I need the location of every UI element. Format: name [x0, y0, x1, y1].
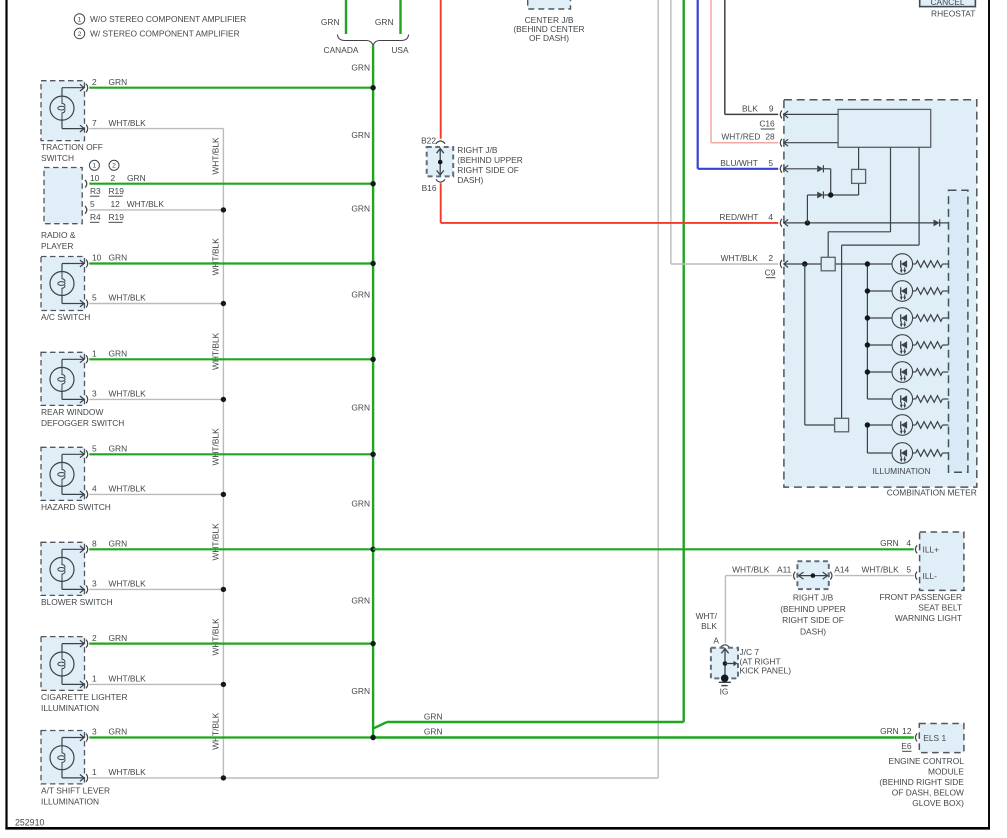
- svg-text:5: 5: [90, 199, 95, 209]
- svg-text:FRONT PASSENGER: FRONT PASSENGER: [879, 592, 962, 602]
- svg-text:GRN: GRN: [351, 402, 370, 412]
- svg-text:WHT/BLK: WHT/BLK: [109, 118, 147, 128]
- svg-text:3: 3: [92, 579, 97, 589]
- svg-text:HAZARD SWITCH: HAZARD SWITCH: [41, 502, 111, 512]
- svg-text:2: 2: [111, 173, 116, 183]
- svg-text:1: 1: [93, 163, 97, 170]
- svg-text:WHT/BLK: WHT/BLK: [109, 674, 147, 684]
- svg-text:R19: R19: [109, 186, 125, 196]
- svg-text:B16: B16: [422, 183, 437, 193]
- svg-text:GRN: GRN: [351, 130, 370, 140]
- svg-text:(BEHIND UPPER: (BEHIND UPPER: [780, 604, 846, 614]
- svg-text:GRN: GRN: [109, 633, 128, 643]
- svg-text:WHT/BLK: WHT/BLK: [109, 767, 147, 777]
- svg-text:1: 1: [92, 767, 97, 777]
- svg-text:WHT/BLK: WHT/BLK: [109, 484, 147, 494]
- svg-text:E6: E6: [901, 741, 912, 751]
- svg-text:WHT/BLK: WHT/BLK: [211, 332, 221, 370]
- svg-text:OF DASH, BELOW: OF DASH, BELOW: [892, 788, 964, 798]
- svg-text:WHT/RED: WHT/RED: [721, 132, 760, 142]
- svg-text:R3: R3: [90, 186, 101, 196]
- svg-text:CANCEL: CANCEL: [931, 0, 965, 7]
- svg-text:WHT/BLK: WHT/BLK: [211, 428, 221, 466]
- svg-text:WHT/BLK: WHT/BLK: [109, 579, 147, 589]
- svg-text:ELS 1: ELS 1: [923, 733, 946, 743]
- svg-text:ILLUMINATION: ILLUMINATION: [41, 796, 99, 806]
- svg-text:4: 4: [92, 484, 97, 494]
- svg-text:9: 9: [769, 103, 774, 113]
- svg-text:KICK PANEL): KICK PANEL): [740, 666, 792, 676]
- svg-text:REAR WINDOW: REAR WINDOW: [41, 407, 103, 417]
- svg-text:A14: A14: [834, 564, 849, 574]
- svg-text:USA: USA: [391, 45, 409, 55]
- svg-text:3: 3: [92, 389, 97, 399]
- svg-text:BLU/WHT: BLU/WHT: [720, 158, 758, 168]
- svg-text:GRN: GRN: [880, 726, 899, 736]
- svg-text:WHT/BLK: WHT/BLK: [211, 712, 221, 750]
- svg-text:GRN: GRN: [424, 711, 443, 721]
- svg-text:4: 4: [906, 538, 911, 548]
- svg-text:1: 1: [92, 674, 97, 684]
- svg-text:(BEHIND UPPER: (BEHIND UPPER: [457, 155, 523, 165]
- svg-text:5: 5: [768, 158, 773, 168]
- svg-text:10: 10: [92, 253, 102, 263]
- svg-text:A/C SWITCH: A/C SWITCH: [41, 312, 90, 322]
- svg-text:2: 2: [92, 633, 97, 643]
- svg-text:GRN: GRN: [109, 539, 128, 549]
- svg-text:GRN: GRN: [109, 253, 128, 263]
- svg-text:OF DASH): OF DASH): [529, 33, 569, 43]
- svg-text:252910: 252910: [15, 818, 44, 828]
- svg-text:A11: A11: [777, 564, 792, 574]
- svg-text:PLAYER: PLAYER: [41, 241, 73, 251]
- svg-text:WHT/BLK: WHT/BLK: [109, 293, 147, 303]
- svg-text:GRN: GRN: [351, 203, 370, 213]
- svg-text:WHT/BLK: WHT/BLK: [732, 564, 770, 574]
- svg-text:28: 28: [765, 132, 775, 142]
- svg-text:GRN: GRN: [109, 727, 128, 737]
- svg-text:WARNING LIGHT: WARNING LIGHT: [895, 613, 962, 623]
- svg-text:GLOVE BOX): GLOVE BOX): [912, 798, 964, 808]
- svg-text:GRN: GRN: [351, 686, 370, 696]
- svg-text:RED/WHT: RED/WHT: [719, 212, 758, 222]
- svg-text:A/T SHIFT LEVER: A/T SHIFT LEVER: [41, 785, 110, 795]
- svg-text:GRN: GRN: [127, 173, 146, 183]
- svg-text:WHT/BLK: WHT/BLK: [721, 253, 759, 263]
- svg-text:8: 8: [92, 539, 97, 549]
- svg-text:GRN: GRN: [109, 77, 128, 87]
- svg-text:10: 10: [90, 173, 100, 183]
- svg-text:4: 4: [768, 212, 773, 222]
- svg-text:5: 5: [92, 444, 97, 454]
- svg-text:ILL-: ILL-: [923, 571, 938, 581]
- svg-text:(BEHIND RIGHT SIDE: (BEHIND RIGHT SIDE: [879, 777, 964, 787]
- svg-text:ILL+: ILL+: [923, 545, 940, 555]
- svg-text:WHT/BLK: WHT/BLK: [211, 137, 221, 175]
- svg-text:COMBINATION METER: COMBINATION METER: [887, 488, 977, 498]
- svg-text:5: 5: [92, 293, 97, 303]
- svg-text:1: 1: [78, 16, 82, 23]
- svg-text:WHT/BLK: WHT/BLK: [109, 389, 147, 399]
- svg-text:RIGHT J/B: RIGHT J/B: [793, 593, 834, 603]
- svg-text:TRACTION OFF: TRACTION OFF: [41, 142, 103, 152]
- svg-text:DASH): DASH): [457, 175, 483, 185]
- svg-text:WHT/BLK: WHT/BLK: [127, 199, 165, 209]
- svg-text:GRN: GRN: [424, 727, 443, 737]
- svg-text:R4: R4: [90, 212, 101, 222]
- svg-text:CIGARETTE LIGHTER: CIGARETTE LIGHTER: [41, 692, 128, 702]
- svg-text:12: 12: [902, 726, 912, 736]
- svg-text:GRN: GRN: [880, 538, 899, 548]
- svg-text:CANADA: CANADA: [324, 45, 359, 55]
- svg-text:RHEOSTAT: RHEOSTAT: [931, 8, 975, 18]
- svg-text:WHT/: WHT/: [696, 611, 718, 621]
- svg-text:RADIO &: RADIO &: [41, 230, 76, 240]
- svg-text:2: 2: [768, 253, 773, 263]
- svg-text:7: 7: [92, 118, 97, 128]
- svg-text:BLK: BLK: [742, 103, 758, 113]
- svg-text:2: 2: [92, 77, 97, 87]
- svg-text:C16: C16: [759, 119, 775, 129]
- svg-text:R19: R19: [109, 212, 125, 222]
- svg-text:BLK: BLK: [701, 621, 717, 631]
- svg-text:WHT/BLK: WHT/BLK: [211, 618, 221, 656]
- svg-text:3: 3: [92, 727, 97, 737]
- svg-text:5: 5: [906, 564, 911, 574]
- svg-text:ENGINE CONTROL: ENGINE CONTROL: [889, 756, 965, 766]
- svg-text:DASH): DASH): [800, 626, 826, 636]
- svg-text:2: 2: [112, 163, 116, 170]
- svg-text:GRN: GRN: [109, 444, 128, 454]
- svg-text:WHT/BLK: WHT/BLK: [861, 564, 899, 574]
- svg-text:12: 12: [111, 199, 121, 209]
- svg-text:SWITCH: SWITCH: [41, 153, 74, 163]
- svg-text:WHT/BLK: WHT/BLK: [211, 523, 221, 561]
- svg-text:GRN: GRN: [351, 498, 370, 508]
- svg-text:IG: IG: [720, 687, 729, 697]
- svg-text:MODULE: MODULE: [928, 767, 964, 777]
- svg-text:2: 2: [78, 31, 82, 38]
- svg-text:GRN: GRN: [375, 17, 394, 27]
- svg-text:GRN: GRN: [321, 17, 340, 27]
- svg-text:C9: C9: [765, 267, 776, 277]
- svg-text:BLOWER SWITCH: BLOWER SWITCH: [41, 597, 113, 607]
- svg-text:RIGHT J/B: RIGHT J/B: [457, 145, 498, 155]
- svg-text:WHT/BLK: WHT/BLK: [211, 238, 221, 276]
- svg-text:ILLUMINATION: ILLUMINATION: [41, 703, 99, 713]
- svg-text:ILLUMINATION: ILLUMINATION: [872, 466, 930, 476]
- svg-text:GRN: GRN: [109, 349, 128, 359]
- svg-text:GRN: GRN: [351, 595, 370, 605]
- svg-text:1: 1: [92, 349, 97, 359]
- svg-text:B22: B22: [421, 136, 436, 146]
- svg-text:DEFOGGER SWITCH: DEFOGGER SWITCH: [41, 418, 124, 428]
- svg-text:W/O STEREO COMPONENT AMPLIFIER: W/O STEREO COMPONENT AMPLIFIER: [90, 14, 246, 24]
- svg-text:RIGHT SIDE OF: RIGHT SIDE OF: [782, 615, 844, 625]
- svg-text:RIGHT SIDE OF: RIGHT SIDE OF: [457, 165, 519, 175]
- svg-text:A: A: [713, 636, 719, 646]
- svg-text:GRN: GRN: [351, 63, 370, 73]
- svg-text:GRN: GRN: [351, 289, 370, 299]
- svg-text:W/ STEREO COMPONENT AMPLIFIER: W/ STEREO COMPONENT AMPLIFIER: [90, 29, 240, 39]
- svg-text:SEAT BELT: SEAT BELT: [918, 603, 962, 613]
